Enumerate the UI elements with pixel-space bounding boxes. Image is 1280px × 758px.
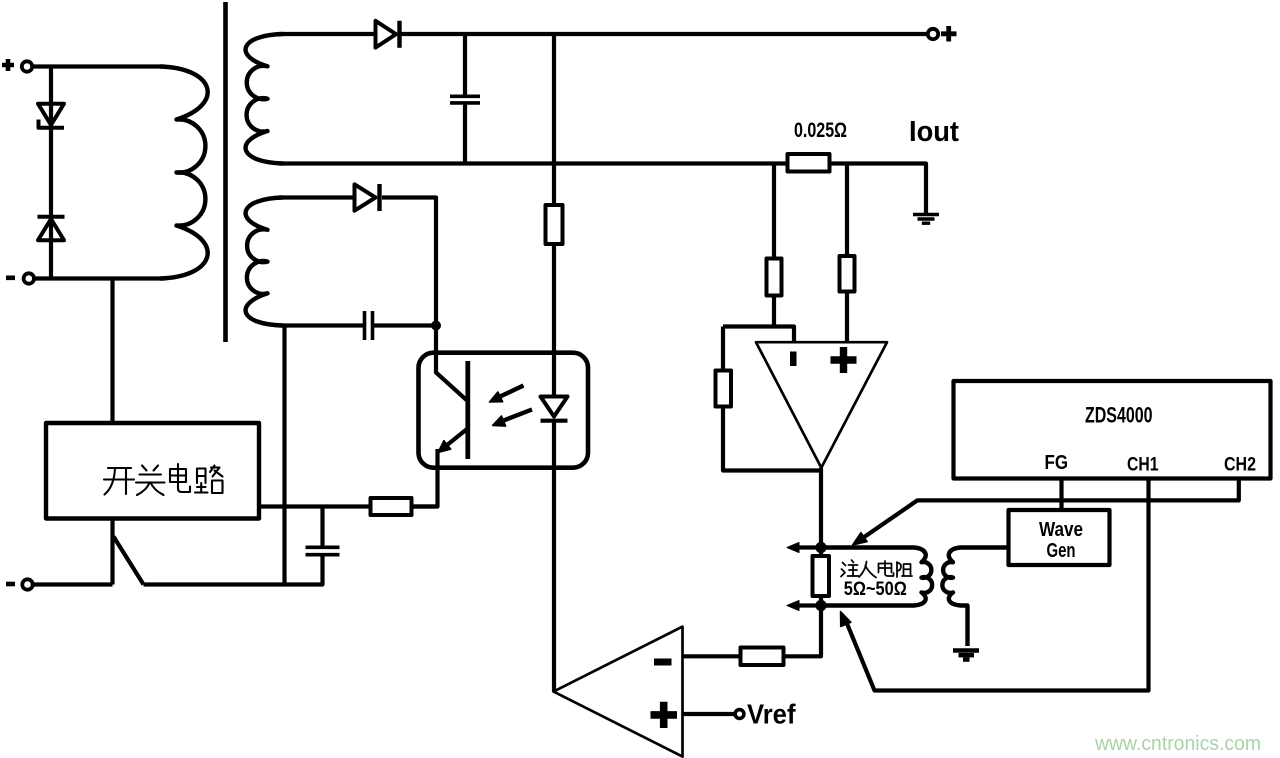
wire op-amp U2 output (741, 468, 822, 657)
optocoupler U1 light arrows (490, 386, 533, 427)
resistor R5 (371, 498, 412, 515)
wire secondary2 bottom rail (279, 323, 436, 327)
svg-text:Wave: Wave (1039, 519, 1083, 541)
wire diode branch vertical (49, 67, 53, 279)
transformer T1 secondary 1 winding (246, 34, 283, 164)
op-amp U2 (756, 342, 887, 468)
wire sense tap right (845, 164, 849, 343)
svg-text:CH2: CH2 (1224, 455, 1256, 476)
ground G1 (913, 215, 939, 224)
label kai guan dian lu (104, 464, 223, 495)
terminal - (bottom) (6, 579, 33, 589)
svg-text:ZDS4000: ZDS4000 (1085, 403, 1153, 428)
wire + terminal to primary top (33, 64, 166, 68)
wire switch diagonal (114, 537, 144, 585)
transformer T1 secondary 2 winding (246, 198, 283, 326)
resistor R6 (716, 371, 732, 407)
wire aux tap down (282, 326, 286, 585)
terminal - (input) (6, 273, 34, 283)
svg-text:FG: FG (1045, 452, 1069, 474)
node C junction dot (815, 600, 826, 611)
resistor R8 (741, 648, 784, 666)
zener diode D1 (38, 104, 64, 128)
wire op-amp minus input (723, 327, 794, 343)
diode D4 (aux rectifier) (355, 184, 380, 211)
svg-text:www.cntronics.com: www.cntronics.com (1094, 733, 1261, 755)
wire switch box bottom leg (110, 519, 114, 585)
terminal Vref (735, 710, 744, 719)
capacitor C1 (450, 34, 480, 164)
ground G2 (953, 651, 979, 660)
resistor R4 (840, 256, 855, 292)
label injection resistor (zhu ru dian zu) (841, 560, 912, 578)
wire U3 minus input (683, 654, 741, 658)
svg-text:Vref: Vref (747, 699, 796, 730)
transformer T1 primary winding (160, 67, 208, 279)
transformer T1 core (223, 2, 228, 342)
wire CH1 lead (845, 479, 1149, 691)
terminal + (input) (2, 59, 32, 72)
resistor R3 (767, 259, 782, 296)
ZDS4000 box (954, 381, 1271, 479)
wire bottom rail (33, 556, 323, 585)
switching circuit box (46, 423, 259, 519)
wire secondary2 top rail (279, 198, 436, 324)
wire feedback loop (723, 327, 822, 471)
node B junction dot (815, 542, 826, 553)
resistor R7 injection (813, 556, 830, 596)
optocoupler U1 LED (541, 397, 568, 421)
svg-text:CH1: CH1 (1127, 455, 1159, 476)
optocoupler U1 phototransistor (412, 327, 468, 507)
wire secondary1 top rail (279, 32, 928, 36)
svg-text:Iout: Iout (909, 116, 959, 148)
diode D3 (output rectifier) (376, 21, 400, 48)
resistor R1 0.025ohm shunt (788, 154, 830, 172)
wire switch box output (259, 504, 438, 508)
terminal + (output) (928, 26, 957, 42)
arrow CH1 head (841, 612, 851, 627)
node A junction dot (431, 321, 441, 331)
svg-text:0.025Ω: 0.025Ω (794, 119, 847, 142)
optocoupler U1 box (419, 353, 589, 468)
arrow left lower (787, 601, 821, 611)
wire - terminal to primary bottom (34, 276, 165, 280)
wire CH2 lead (857, 479, 1239, 543)
wire sense tap left (772, 164, 776, 327)
capacitor C3 (306, 507, 340, 555)
resistor R2 (on main vertical) (546, 205, 563, 244)
diode D2 (38, 217, 65, 240)
svg-text:5Ω~50Ω: 5Ω~50Ω (844, 578, 907, 600)
wire main vertical from top rail (552, 34, 556, 692)
op-amp U3 (554, 627, 683, 757)
injection transformer T2 left winding (821, 548, 932, 606)
arrow left upper (787, 543, 821, 553)
svg-text:Gen: Gen (1047, 540, 1076, 562)
arrow CH2 head (853, 533, 868, 545)
capacitor C2 (365, 311, 373, 340)
wire - rail to switch box (110, 279, 114, 424)
wire U3 plus input (683, 712, 736, 716)
Wave Gen box (1009, 510, 1110, 565)
injection transformer T2 right winding (942, 548, 1008, 647)
wire FG lead (1059, 479, 1063, 511)
wire secondary1 bottom rail / Iout rail (279, 164, 926, 214)
